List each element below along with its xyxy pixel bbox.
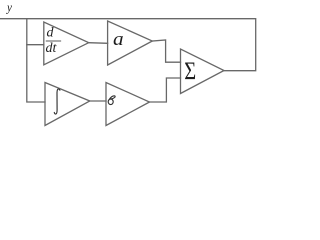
svg-text:a: a bbox=[113, 29, 124, 50]
svg-text:Σ: Σ bbox=[184, 56, 196, 85]
svg-text:dt: dt bbox=[46, 41, 58, 56]
svg-text:y: y bbox=[6, 0, 12, 15]
svg-text:d: d bbox=[47, 26, 55, 41]
